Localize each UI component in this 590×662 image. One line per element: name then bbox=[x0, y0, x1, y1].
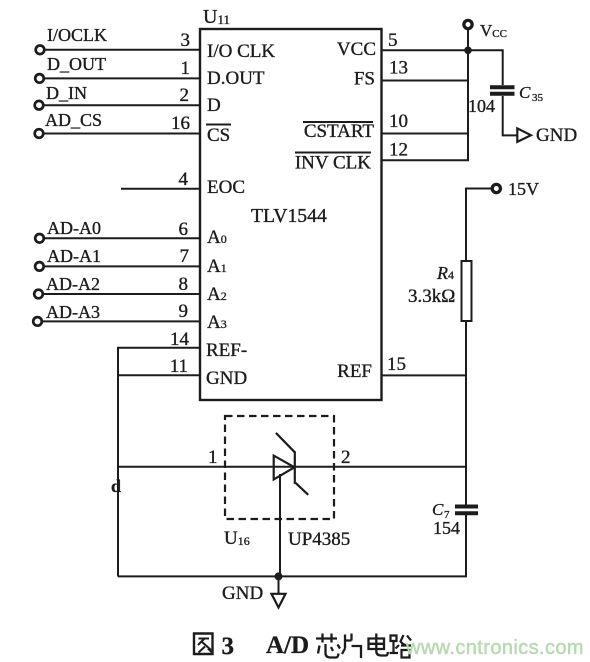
wire R4 to REF node and down bbox=[465, 321, 467, 467]
ground GND (down arrow symbol) bbox=[222, 576, 286, 607]
capacitor C35 bbox=[468, 83, 544, 116]
svg-text:A/D: A/D bbox=[266, 632, 309, 659]
svg-text:4: 4 bbox=[179, 169, 189, 190]
svg-text:3.3kΩ: 3.3kΩ bbox=[408, 286, 455, 307]
ground GND (right arrow symbol) bbox=[517, 125, 577, 146]
pin A3 (pin 9 label) bbox=[179, 301, 227, 333]
svg-text:I/OCLK: I/OCLK bbox=[47, 25, 107, 45]
svg-text:11: 11 bbox=[170, 356, 188, 377]
caption 路 (drawn glyph) bbox=[390, 635, 412, 658]
svg-text:CS: CS bbox=[207, 125, 230, 146]
svg-text:16: 16 bbox=[171, 113, 190, 134]
wire pin 10 to VCC rail bbox=[382, 133, 470, 135]
wire UP4385 horizontal (node 1 to node 2) bbox=[118, 466, 467, 468]
svg-text:AD_CS: AD_CS bbox=[45, 110, 102, 130]
svg-text:R4: R4 bbox=[436, 263, 454, 283]
terminal AD-A3 bbox=[33, 302, 100, 326]
caption 图 3 bbox=[194, 633, 234, 660]
wire pin 14 to left rail bbox=[117, 347, 200, 349]
terminal D_OUT bbox=[35, 54, 106, 83]
terminal 15V bbox=[492, 179, 539, 199]
svg-text:A3: A3 bbox=[207, 312, 227, 333]
svg-text:A1: A1 bbox=[207, 256, 227, 277]
terminal AD-A0 bbox=[35, 218, 101, 243]
pin REF- (pin 14 label) bbox=[170, 329, 247, 361]
wire pin 3 bbox=[45, 49, 201, 51]
resistor R4 bbox=[408, 261, 472, 321]
svg-text:D_OUT: D_OUT bbox=[47, 54, 106, 74]
svg-text:2: 2 bbox=[341, 447, 351, 468]
transistor U16 dashed box bbox=[225, 416, 334, 519]
node junction VCC bbox=[464, 47, 472, 55]
svg-text:3: 3 bbox=[181, 30, 191, 51]
svg-text:15: 15 bbox=[387, 354, 406, 375]
svg-text:9: 9 bbox=[179, 301, 189, 322]
svg-text:104: 104 bbox=[468, 96, 495, 116]
svg-text:GND: GND bbox=[536, 125, 577, 146]
svg-text:13: 13 bbox=[389, 58, 408, 79]
svg-text:U16: U16 bbox=[224, 528, 250, 549]
terminal AD-A2 bbox=[34, 274, 100, 298]
terminal AD_CS bbox=[35, 110, 102, 138]
pin CS (pin 16 label, active low) bbox=[171, 113, 231, 146]
pin GND (pin 11 label) bbox=[170, 356, 247, 389]
svg-text:10: 10 bbox=[389, 111, 408, 132]
wire pin 7 bbox=[44, 265, 200, 267]
wire VCC vertical bbox=[467, 29, 469, 161]
svg-text:6: 6 bbox=[179, 219, 189, 240]
svg-text:AD-A1: AD-A1 bbox=[47, 246, 101, 266]
svg-text:VCC: VCC bbox=[480, 21, 507, 40]
node junction bottom GND bbox=[275, 572, 283, 580]
caption 芯 (drawn glyph) bbox=[316, 634, 340, 658]
svg-text:VCC: VCC bbox=[337, 39, 376, 60]
pin A2 (pin 8 label) bbox=[179, 274, 227, 305]
svg-text:D: D bbox=[207, 95, 221, 116]
svg-text:UP4385: UP4385 bbox=[288, 529, 350, 550]
svg-text:C: C bbox=[432, 500, 444, 519]
wire VCC to C35 bbox=[468, 50, 503, 85]
wire pin 5 to VCC node bbox=[382, 49, 469, 51]
wire pin 2 bbox=[44, 104, 201, 106]
wire pin 12 to VCC rail bbox=[382, 159, 470, 161]
svg-text:AD-A0: AD-A0 bbox=[47, 218, 101, 238]
pin D (pin 2 label) bbox=[180, 85, 221, 116]
svg-text:FS: FS bbox=[354, 69, 375, 90]
pin A0 (pin 6 label) bbox=[179, 219, 227, 248]
svg-text:8: 8 bbox=[179, 274, 189, 295]
caption 电 (drawn glyph) bbox=[369, 634, 388, 656]
terminal I/OCLK bbox=[36, 25, 107, 54]
wire pin 1 bbox=[44, 77, 200, 79]
svg-text:U11: U11 bbox=[203, 6, 230, 28]
svg-text:D_IN: D_IN bbox=[46, 83, 87, 103]
capacitor C7 bbox=[432, 500, 478, 538]
terminal D_IN bbox=[35, 83, 87, 109]
wire pin 16 bbox=[44, 133, 201, 135]
svg-text:154: 154 bbox=[433, 518, 460, 538]
svg-text:REF: REF bbox=[337, 361, 372, 382]
wire U16 anode to bottom rail bbox=[279, 474, 281, 576]
svg-text:7: 7 bbox=[180, 246, 190, 267]
pin REF (pin 15 label) bbox=[337, 354, 406, 382]
wire pin 8 bbox=[43, 293, 200, 295]
wire pin 13 to VCC rail bbox=[382, 80, 470, 82]
diode U16 shunt reference symbol bbox=[274, 433, 309, 495]
svg-text:5: 5 bbox=[388, 30, 398, 51]
wire bottom rail bbox=[118, 513, 466, 576]
wire C35 to GND bbox=[503, 96, 517, 135]
wire pin 15 REF bbox=[382, 374, 468, 376]
svg-text:d: d bbox=[111, 476, 121, 496]
svg-text:TLV1544: TLV1544 bbox=[251, 205, 327, 227]
terminal VCC bbox=[464, 20, 507, 40]
svg-text:GND: GND bbox=[222, 583, 263, 604]
op-amp U1 : IC body TLV1544 bbox=[200, 6, 382, 400]
wire 15V to R4 bbox=[466, 189, 492, 262]
svg-text:2: 2 bbox=[180, 85, 190, 106]
wire pin 4 EOC bbox=[121, 188, 200, 190]
wire pin 11 to left rail bbox=[117, 374, 200, 376]
pin D.OUT (pin 1 label) bbox=[181, 58, 265, 89]
wire pin 6 bbox=[44, 237, 200, 239]
svg-text:15V: 15V bbox=[508, 179, 539, 199]
svg-text:AD-A3: AD-A3 bbox=[46, 302, 100, 322]
terminal AD-A1 bbox=[35, 246, 101, 271]
svg-text:3: 3 bbox=[222, 633, 235, 660]
wire left rail vertical bbox=[117, 348, 119, 577]
svg-text:I/O CLK: I/O CLK bbox=[207, 41, 275, 62]
svg-text:GND: GND bbox=[206, 368, 247, 389]
pin FS (pin 13 label) bbox=[354, 58, 408, 90]
svg-text:A0: A0 bbox=[207, 227, 227, 248]
svg-text:D.OUT: D.OUT bbox=[207, 68, 265, 89]
svg-text:REF-: REF- bbox=[206, 340, 247, 361]
svg-text:AD-A2: AD-A2 bbox=[46, 274, 100, 294]
pin CSTART (pin 10 label, active low) bbox=[303, 111, 408, 142]
svg-text:1: 1 bbox=[181, 58, 191, 79]
svg-text:www.cntronics.com: www.cntronics.com bbox=[405, 637, 584, 659]
caption 片 (drawn glyph) bbox=[342, 634, 361, 659]
svg-text:35: 35 bbox=[532, 92, 544, 104]
wire REF rail down to C7 bbox=[465, 467, 467, 505]
pin INV CLK (pin 12 label, active low) bbox=[295, 140, 408, 174]
wire pin 9 bbox=[42, 320, 200, 322]
svg-text:A2: A2 bbox=[207, 284, 227, 305]
svg-text:INV CLK: INV CLK bbox=[295, 153, 371, 174]
svg-text:12: 12 bbox=[389, 140, 408, 161]
pin A1 (pin 7 label) bbox=[180, 246, 227, 277]
svg-text:C: C bbox=[519, 83, 531, 102]
pin I/O CLK (pin 3 label) bbox=[181, 30, 276, 62]
pin EOC (pin 4 label) bbox=[179, 169, 246, 198]
svg-text:1: 1 bbox=[208, 447, 218, 468]
pin VCC (pin 5 label) bbox=[337, 30, 398, 60]
svg-text:EOC: EOC bbox=[207, 177, 245, 198]
svg-text:CSTART: CSTART bbox=[304, 121, 375, 142]
